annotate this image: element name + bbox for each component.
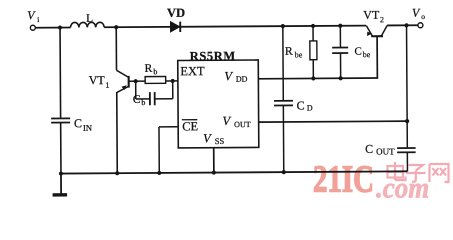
svg-text:21IC: 21IC [313,159,374,201]
svg-text:o: o [421,12,425,21]
svg-text:C: C [133,94,141,106]
svg-text:C: C [296,98,304,112]
svg-text:i: i [37,15,39,24]
svg-text:C: C [354,46,361,58]
svg-text:VT: VT [89,73,106,87]
svg-text:DD: DD [236,75,248,84]
svg-text:b: b [153,67,157,76]
svg-text:OUT: OUT [234,120,251,129]
svg-text:V: V [412,6,421,20]
svg-text:VT: VT [363,8,380,22]
svg-text:2: 2 [380,15,384,24]
svg-text:V: V [222,114,231,128]
svg-text:L: L [86,13,93,25]
svg-text:be: be [363,50,371,59]
svg-text:R: R [145,63,153,75]
svg-text:b: b [141,98,145,107]
svg-text:C: C [74,116,82,130]
svg-text:IN: IN [83,123,92,133]
svg-text:CE: CE [182,119,198,133]
svg-text:D: D [307,103,313,112]
svg-text:C: C [365,142,373,156]
svg-text:be: be [295,50,303,59]
svg-text:VD: VD [167,6,185,20]
svg-text:OUT: OUT [376,146,395,156]
svg-text:SS: SS [215,136,225,146]
svg-text:RS5RM: RS5RM [190,49,236,63]
svg-text:V: V [224,69,233,83]
svg-text:EXT: EXT [180,64,205,78]
svg-text:V: V [27,8,36,22]
svg-text:R: R [285,46,293,58]
svg-text:1: 1 [105,81,109,90]
svg-text:V: V [203,131,212,145]
